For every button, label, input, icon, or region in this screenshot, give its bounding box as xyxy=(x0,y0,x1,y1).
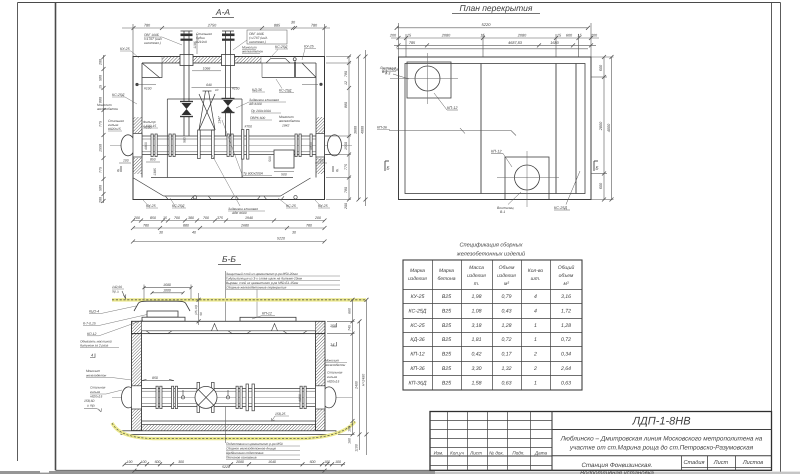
svg-text:850: 850 xyxy=(152,376,158,380)
svg-text:1,58: 1,58 xyxy=(471,380,481,386)
svg-text:КЦО-4: КЦО-4 xyxy=(89,310,99,314)
svg-text:158,25: 158,25 xyxy=(275,412,285,416)
svg-text:#800: #800 xyxy=(298,394,302,402)
svg-text:100: 100 xyxy=(123,159,129,163)
roof layers note block xyxy=(226,272,303,290)
sheet right border xyxy=(771,3,773,472)
svg-text:100: 100 xyxy=(324,460,330,464)
right wall xyxy=(316,334,326,431)
pipe centerline xyxy=(110,144,352,146)
svg-text:2800: 2800 xyxy=(599,121,603,131)
standpipe 1 xyxy=(181,31,193,136)
svg-text:30: 30 xyxy=(292,231,296,235)
BB right dim chain 3 xyxy=(365,298,369,455)
chamber outer box xyxy=(133,57,325,200)
svg-text:Кол-во: Кол-во xyxy=(528,268,544,274)
left stamp grid rows xyxy=(430,421,552,466)
svg-text:железобетон: железобетон xyxy=(96,107,118,111)
svg-text:1100: 1100 xyxy=(355,444,359,452)
svg-text:Б-Б: Б-Б xyxy=(222,254,236,264)
svg-text:#100: #100 xyxy=(144,126,152,130)
plan slab outer rectangle xyxy=(399,57,592,200)
BB bottom dim row2 xyxy=(132,469,326,473)
pipe centerline BB xyxy=(112,396,352,398)
slab end block hatch right xyxy=(316,321,326,333)
svg-text:В25: В25 xyxy=(442,308,451,314)
svg-text:План перекрытия: План перекрытия xyxy=(460,3,533,13)
left margin line xyxy=(17,3,19,462)
svg-text:Подготовка из цементного р-ра: Подготовка из цементного р-ра М50 xyxy=(226,442,283,446)
svg-text:Подп.: Подп. xyxy=(512,451,524,456)
svg-text:бетона: бетона xyxy=(438,276,456,282)
wall hatch at pipe left xyxy=(133,117,142,133)
svg-text:Стальная: Стальная xyxy=(327,371,343,375)
svg-text:600: 600 xyxy=(599,182,603,189)
svg-text:КУ-25: КУ-25 xyxy=(411,294,425,300)
sheet left border xyxy=(55,3,57,471)
svg-text:200: 200 xyxy=(590,34,598,38)
svg-text:142,66: 142,66 xyxy=(112,285,122,289)
depth dim at hatch xyxy=(197,293,201,325)
svg-text:железобетон: железобетон xyxy=(85,374,107,378)
svg-text:(25,10): (25,10) xyxy=(194,305,198,315)
svg-text:изготовл.): изготовл.) xyxy=(249,40,266,44)
svg-text:1,81: 1,81 xyxy=(471,337,481,343)
svg-text:380: 380 xyxy=(188,216,194,220)
floor embed circle left xyxy=(193,196,196,199)
label pvg left xyxy=(144,33,162,45)
left wall xyxy=(132,334,142,431)
svg-text:КП-12: КП-12 xyxy=(491,150,502,154)
sheet top border xyxy=(18,2,781,4)
svg-text:40: 40 xyxy=(192,231,196,235)
svg-text:2480: 2480 xyxy=(355,381,359,390)
svg-text:1,72: 1,72 xyxy=(561,308,571,314)
floor embed circle right xyxy=(294,196,297,199)
svg-text:12: 12 xyxy=(344,81,348,85)
gate valve on standpipe 1 xyxy=(182,103,192,115)
label pvg right boxed xyxy=(247,30,287,44)
svg-text:#800: #800 xyxy=(144,142,148,150)
svg-text:железобетон: железобетон xyxy=(241,50,263,54)
svg-text:Сборные железобетонные перекры: Сборные железобетонные перекрытия xyxy=(226,286,287,290)
svg-text:158,60: 158,60 xyxy=(84,399,94,403)
svg-text:Объем: Объем xyxy=(499,265,515,271)
svg-text:ЛДП-1-8НВ: ЛДП-1-8НВ xyxy=(631,416,690,428)
svg-text:780: 780 xyxy=(344,71,348,77)
svg-text:880: 880 xyxy=(183,224,189,228)
svg-text:В25: В25 xyxy=(442,294,451,300)
svg-text:15: 15 xyxy=(163,216,167,220)
main pipe body xyxy=(135,136,334,155)
svg-text:КП-12: КП-12 xyxy=(87,332,96,336)
svg-text:#100: #100 xyxy=(232,87,240,91)
sheet bottom border xyxy=(56,469,772,471)
A-A right dim chain 2 (3600) xyxy=(357,55,361,202)
svg-text:190: 190 xyxy=(127,460,133,464)
drain box dim 500 xyxy=(274,171,294,173)
KP-12 plate on slab xyxy=(240,317,296,321)
svg-text:2680: 2680 xyxy=(240,224,249,228)
outer right margin line xyxy=(780,3,782,474)
manhole neck xyxy=(147,311,178,317)
svg-text:5220: 5220 xyxy=(277,236,285,240)
plan hatch opening KP-12 top-left xyxy=(407,62,451,98)
interior floor line xyxy=(142,420,316,422)
funnel with cross xyxy=(199,91,215,130)
label steel sleeve left xyxy=(108,119,124,131)
standpipe1 vent flanges xyxy=(181,34,193,37)
svg-text:0,43: 0,43 xyxy=(501,308,511,314)
svg-text:Хр.з.: Хр.з. xyxy=(111,290,119,294)
dim 850 BB xyxy=(142,380,175,382)
svg-text:2,64: 2,64 xyxy=(560,366,571,372)
svg-text:780: 780 xyxy=(306,224,312,228)
svg-text:1680: 1680 xyxy=(550,41,559,45)
svg-text:В-1: В-1 xyxy=(500,210,505,214)
svg-text:Гидроизоляция из 3-х слоев щел: Гидроизоляция из 3-х слоев щелк на битум… xyxy=(226,277,303,281)
svg-text:м³: м³ xyxy=(563,281,568,287)
svg-text:Кол.уч: Кол.уч xyxy=(450,451,464,456)
section mark B right xyxy=(594,161,598,171)
svg-text:Сборное железобетонное днище: Сборное железобетонное днище xyxy=(226,447,276,451)
roof sleeve box pipe2 xyxy=(222,55,235,66)
svg-text:885: 885 xyxy=(274,24,281,28)
svg-text:#820х15: #820х15 xyxy=(327,380,339,384)
svg-text:780: 780 xyxy=(143,224,149,228)
svg-text:м³: м³ xyxy=(504,281,509,287)
svg-text:1550: 1550 xyxy=(99,144,103,152)
svg-text:15: 15 xyxy=(99,85,103,89)
svg-text:КС-25: КС-25 xyxy=(410,323,424,329)
svg-text:1066: 1066 xyxy=(203,66,211,70)
svg-text:640: 640 xyxy=(206,83,212,87)
svg-text:№ док.: № док. xyxy=(489,451,504,456)
svg-text:50: 50 xyxy=(199,312,203,316)
svg-text:375: 375 xyxy=(217,216,223,220)
svg-text:0,63: 0,63 xyxy=(501,380,511,386)
svg-text:В25: В25 xyxy=(442,337,451,343)
svg-text:3,30: 3,30 xyxy=(471,366,481,372)
bottom-left corner chamfer xyxy=(134,178,164,196)
svg-text:Стадия: Стадия xyxy=(684,459,705,466)
svg-text:0,42: 0,42 xyxy=(471,352,481,358)
roof sleeve box pipe1 xyxy=(180,55,193,66)
anchor bar on slab xyxy=(294,62,296,78)
svg-text:780: 780 xyxy=(311,24,318,28)
svg-text:700: 700 xyxy=(174,216,180,220)
svg-text:2080: 2080 xyxy=(441,34,451,38)
right labels BB xyxy=(324,359,346,368)
svg-text:КП-36: КП-36 xyxy=(377,126,387,130)
label monolith right mid xyxy=(278,115,300,128)
table data xyxy=(409,294,572,386)
svg-text:КП-12: КП-12 xyxy=(447,106,458,110)
dim 1066 below slab xyxy=(192,70,221,72)
slab rib profile xyxy=(142,324,316,334)
top-right console band xyxy=(262,76,316,78)
svg-text:580: 580 xyxy=(99,75,103,81)
svg-text:5220: 5220 xyxy=(482,22,492,27)
dim 1186 between pipes xyxy=(196,34,198,54)
svg-text:1385: 1385 xyxy=(153,168,157,176)
note leader line 1 xyxy=(225,271,227,321)
svg-text:660: 660 xyxy=(348,308,352,314)
ground dashed line xyxy=(112,299,366,301)
svg-text:500: 500 xyxy=(281,173,287,177)
floor pit bottom line xyxy=(164,195,281,197)
svg-text:1347: 1347 xyxy=(218,116,222,124)
label monolith left xyxy=(96,103,118,111)
svg-text:850: 850 xyxy=(150,158,156,162)
svg-text:100: 100 xyxy=(348,426,352,432)
svg-text:АВ #100: АВ #100 xyxy=(248,102,262,106)
plan dim line row2 xyxy=(391,34,599,57)
drain box xyxy=(274,150,294,168)
plan manhole circle 2 xyxy=(515,165,540,190)
table grid xyxy=(403,260,582,390)
svg-text:200: 200 xyxy=(314,216,321,220)
svg-text:Общий: Общий xyxy=(558,265,575,271)
svg-text:#820х15: #820х15 xyxy=(108,127,121,131)
svg-text:КС-25Д: КС-25Д xyxy=(275,45,288,49)
svg-text:200: 200 xyxy=(344,203,348,210)
svg-text:#219х9: #219х9 xyxy=(196,40,207,44)
table header xyxy=(408,265,574,287)
standpipe2 vent flanges xyxy=(222,34,235,37)
svg-text:700: 700 xyxy=(203,216,209,220)
A-A bottom dim row3 xyxy=(131,240,327,244)
svg-text:1: 1 xyxy=(534,337,537,343)
bottom-right corner chamfer xyxy=(281,178,311,196)
svg-text:2080: 2080 xyxy=(517,34,527,38)
plan overall height dim 4000 xyxy=(610,55,614,202)
svg-text:и тр.: и тр. xyxy=(87,404,95,408)
svg-text:785: 785 xyxy=(409,41,416,45)
plan right dim chain xyxy=(591,55,614,202)
svg-text:Масса: Масса xyxy=(469,265,484,271)
svg-text:гильза: гильза xyxy=(90,390,100,394)
svg-text:775: 775 xyxy=(344,164,348,170)
svg-text:0,79: 0,79 xyxy=(501,294,511,300)
steel sleeve right xyxy=(328,135,342,156)
svg-text:600: 600 xyxy=(599,64,603,71)
svg-text:Б: Б xyxy=(596,166,599,171)
svg-text:железобетон: железобетон xyxy=(278,119,300,123)
label steel sleeve BB right xyxy=(327,371,343,384)
lower divider xyxy=(552,455,772,457)
elevation arrow xyxy=(122,291,126,299)
svg-text:КП-12: КП-12 xyxy=(262,312,272,316)
roof slab hatch xyxy=(162,57,261,64)
small embed circle right wall xyxy=(319,83,322,86)
svg-text:850: 850 xyxy=(150,216,156,220)
svg-text:Лист: Лист xyxy=(469,451,482,456)
svg-text:изделия: изделия xyxy=(467,273,486,279)
floor key trays xyxy=(166,196,285,199)
plan slab inner rectangle xyxy=(405,64,585,194)
svg-text:500: 500 xyxy=(268,156,272,162)
svg-text:КУ-25: КУ-25 xyxy=(304,45,314,49)
left stamp grid verticals xyxy=(448,412,553,471)
title block outer border xyxy=(430,412,772,471)
svg-text:Водоотливная установка: Водоотливная установка xyxy=(580,470,654,474)
svg-text:780: 780 xyxy=(144,24,151,28)
label steel tube xyxy=(196,32,212,44)
inner pit enclosure xyxy=(167,99,242,178)
plan manhole circle 1 xyxy=(415,66,440,91)
svg-text:железобетон: железобетон xyxy=(324,363,346,367)
svg-text:Лист: Лист xyxy=(713,460,729,466)
svg-text:1: 1 xyxy=(534,380,537,386)
dim 640 between standpipes xyxy=(192,87,238,89)
svg-text:Монолит: Монолит xyxy=(325,359,339,363)
note leader line 2 xyxy=(256,290,258,320)
svg-text:150: 150 xyxy=(330,324,336,328)
manhole dim 1000 xyxy=(151,291,185,294)
svg-text:Пр 200х100А: Пр 200х100А xyxy=(251,109,272,113)
svg-text:В25: В25 xyxy=(442,323,451,329)
svg-text:#820х15: #820х15 xyxy=(90,395,102,399)
A-A right dim chain 1 xyxy=(326,55,351,202)
label monolith BB left xyxy=(85,369,107,378)
svg-text:3,18: 3,18 xyxy=(471,323,481,329)
svg-text:780: 780 xyxy=(344,187,348,193)
svg-text:А-А: А-А xyxy=(215,7,231,17)
svg-text:100: 100 xyxy=(141,460,147,464)
gate valve on standpipe 2 xyxy=(223,100,233,112)
svg-text:КД-36: КД-36 xyxy=(410,337,424,343)
svg-text:Выравн. слой из цементного р-р: Выравн. слой из цементного р-ра М50-Б1-1… xyxy=(226,281,299,285)
plan circle 2 axes xyxy=(497,151,559,207)
BB right dim chain 1 xyxy=(327,298,355,437)
plan dim line row3 xyxy=(394,43,596,48)
svg-text:1842: 1842 xyxy=(282,124,290,128)
label monolith top xyxy=(241,46,263,54)
slab recessed panel xyxy=(266,59,290,63)
doc number cell xyxy=(552,429,772,431)
svg-text:580: 580 xyxy=(183,137,187,143)
svg-text:3600: 3600 xyxy=(354,126,358,134)
svg-text:КП-36: КП-36 xyxy=(410,366,424,372)
svg-text:Станция Фонвизинская.: Станция Фонвизинская. xyxy=(581,462,652,469)
svg-text:В25: В25 xyxy=(442,380,451,386)
svg-text:4687,83: 4687,83 xyxy=(508,41,523,45)
plan slab joint lines xyxy=(481,64,576,194)
roof slab bottom line xyxy=(142,62,316,64)
svg-text:Люблинско – Дмитровская лин: Люблинско – Дмитровская линия Московског… xyxy=(560,436,763,443)
svg-text:изделия: изделия xyxy=(408,276,427,282)
label filter xyxy=(143,120,156,128)
small embed circle left wall xyxy=(135,83,138,86)
plan top dim line 5220 xyxy=(395,23,591,57)
sand bed yellow band xyxy=(112,422,355,439)
svg-text:#100: #100 xyxy=(144,87,152,91)
svg-text:Марка: Марка xyxy=(439,268,454,274)
svg-text:ПВРК 600: ПВРК 600 xyxy=(250,116,265,120)
manhole cone xyxy=(134,301,190,311)
svg-text:300: 300 xyxy=(178,460,184,464)
svg-text:Тр 600х200А: Тр 600х200А xyxy=(243,172,264,176)
svg-text:775: 775 xyxy=(99,121,103,127)
svg-text:КС-25Д: КС-25Д xyxy=(172,204,185,208)
svg-text:изготовл.): изготовл.) xyxy=(144,41,161,45)
svg-text:1940: 1940 xyxy=(245,216,253,220)
manhole base plate xyxy=(142,317,185,321)
floor slab hatched xyxy=(142,425,316,431)
svg-text:т.: т. xyxy=(474,281,480,287)
svg-text:1680: 1680 xyxy=(163,283,171,287)
sand bed dashed line xyxy=(112,422,355,439)
svg-text:1550: 1550 xyxy=(344,142,348,150)
svg-text:3,16: 3,16 xyxy=(561,294,571,300)
interior floor line xyxy=(151,177,293,179)
svg-text:100: 100 xyxy=(335,460,341,464)
svg-text:объем: объем xyxy=(559,273,574,279)
leader line KP-36 xyxy=(389,130,511,132)
svg-text:0,72: 0,72 xyxy=(501,337,511,343)
stamp column labels xyxy=(434,451,548,456)
svg-text:1,98: 1,98 xyxy=(471,294,481,300)
svg-text:Защитный слой из цементного р-: Защитный слой из цементного р-ра М50-20м… xyxy=(226,272,298,276)
svg-text:Монолит: Монолит xyxy=(86,369,100,373)
bottom note block BB xyxy=(226,442,283,460)
svg-text:изделия: изделия xyxy=(497,273,516,279)
slab end block hatch left xyxy=(132,321,142,333)
svg-text:Б: Б xyxy=(387,166,390,171)
svg-text:КП-12: КП-12 xyxy=(410,352,424,358)
svg-text:880: 880 xyxy=(344,102,348,108)
svg-text:Спецификация сборных: Спецификация сборных xyxy=(459,242,522,249)
svg-text:2: 2 xyxy=(533,352,537,358)
stage cells xyxy=(682,456,772,471)
ground level yellow band xyxy=(112,298,366,301)
svg-text:железобетонных изделий: железобетонных изделий xyxy=(456,251,525,258)
svg-text:200: 200 xyxy=(99,59,103,66)
svg-text:600: 600 xyxy=(155,460,161,464)
svg-text:КУ-25: КУ-25 xyxy=(120,47,130,51)
svg-text:4000: 4000 xyxy=(607,123,611,132)
svg-text:200: 200 xyxy=(99,197,103,204)
svg-text:шт.: шт. xyxy=(531,276,541,282)
label zadvizhka klinovaya AB100 xyxy=(248,98,279,106)
svg-text:2750: 2750 xyxy=(207,24,217,28)
svg-text:1: 1 xyxy=(534,323,537,329)
svg-text:2: 2 xyxy=(533,366,537,372)
plan circle 1 axes xyxy=(390,53,458,104)
svg-text:КС-25Д: КС-25Д xyxy=(279,89,292,93)
svg-text:участке от ст.Марина роща: участке от ст.Марина роща до ст.Петровск… xyxy=(569,445,754,452)
section mark B left xyxy=(385,161,389,171)
svg-text:600: 600 xyxy=(310,460,316,464)
svg-text:Щебёночная подготовка: Щебёночная подготовка xyxy=(226,451,264,455)
main pipe BB xyxy=(135,388,329,406)
svg-text:В25: В25 xyxy=(442,352,451,358)
svg-text:0,17: 0,17 xyxy=(501,352,512,358)
svg-text:#700: #700 xyxy=(245,125,253,129)
svg-text:гильза: гильза xyxy=(327,375,337,379)
svg-text:200: 200 xyxy=(389,34,397,38)
svg-text:775: 775 xyxy=(99,167,103,173)
svg-text:0,34: 0,34 xyxy=(561,352,571,358)
pipe flanges BB xyxy=(156,382,306,412)
svg-text:5220: 5220 xyxy=(222,465,230,469)
top-left corner console xyxy=(142,63,162,78)
svg-text:10: 10 xyxy=(215,88,219,92)
svg-text:Изм.: Изм. xyxy=(434,451,444,456)
BB right dim chain 2 xyxy=(358,319,362,450)
steel sleeve right BB xyxy=(322,387,336,408)
